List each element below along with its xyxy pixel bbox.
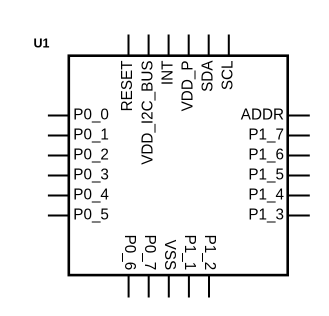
pin P0_4: [48, 186, 110, 203]
pin P0_1: [48, 126, 109, 143]
svg-text:P1_2: P1_2: [201, 235, 218, 271]
svg-text:VSS: VSS: [161, 240, 178, 271]
svg-text:P1_1: P1_1: [181, 235, 198, 271]
pin SCL: [220, 35, 237, 91]
svg-text:P0_7: P0_7: [141, 235, 158, 271]
pin P0_3: [48, 166, 109, 183]
svg-text:SCL: SCL: [220, 61, 237, 91]
pin P1_6: [248, 146, 309, 163]
pin SDA: [199, 35, 216, 92]
pin P1_4: [248, 186, 309, 203]
svg-text:P1_6: P1_6: [248, 146, 284, 163]
pin P1_7: [248, 126, 309, 143]
pin VSS: [161, 240, 178, 298]
pin P0_5: [48, 206, 109, 223]
svg-text:U1: U1: [34, 37, 50, 51]
svg-text:P1_3: P1_3: [248, 206, 284, 223]
svg-text:P1_5: P1_5: [248, 166, 284, 183]
pin VDD_P: [179, 35, 196, 112]
pin P0_7: [141, 235, 158, 298]
pin RESET: [119, 35, 136, 112]
pin VDD_I2C_BUS: [139, 35, 156, 165]
svg-text:INT: INT: [159, 61, 176, 86]
svg-text:P0_3: P0_3: [73, 166, 109, 183]
pin ADDR: [241, 106, 310, 123]
IC U1 body: [69, 56, 288, 275]
pin P0_0: [48, 106, 109, 123]
pin P1_5: [248, 166, 309, 183]
svg-text:VDD_P: VDD_P: [179, 61, 196, 112]
pin P1_3: [248, 206, 309, 223]
svg-text:RESET: RESET: [119, 61, 136, 112]
pin P0_2: [48, 146, 109, 163]
svg-text:VDD_I2C_BUS: VDD_I2C_BUS: [139, 61, 156, 165]
svg-text:P0_0: P0_0: [73, 106, 109, 123]
pin P1_1: [181, 235, 198, 298]
svg-text:P0_4: P0_4: [73, 186, 109, 203]
svg-text:P1_4: P1_4: [248, 186, 284, 203]
pin P1_2: [201, 235, 218, 298]
svg-text:P0_5: P0_5: [73, 206, 109, 223]
svg-text:ADDR: ADDR: [241, 106, 284, 123]
pin INT: [159, 35, 176, 86]
svg-text:P0_6: P0_6: [121, 235, 138, 271]
svg-text:P0_2: P0_2: [73, 146, 109, 163]
svg-text:P1_7: P1_7: [248, 126, 284, 143]
svg-text:P0_1: P0_1: [73, 126, 109, 143]
pin P0_6: [121, 235, 138, 298]
svg-text:SDA: SDA: [199, 60, 216, 92]
